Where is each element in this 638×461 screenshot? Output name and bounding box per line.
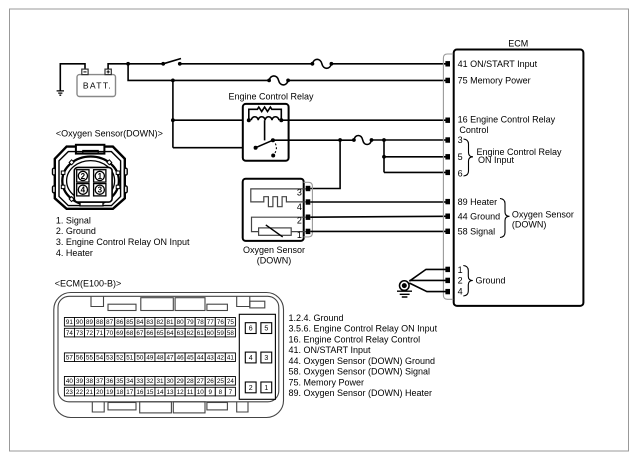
node C (relay coil feed junction) [171,118,175,122]
svg-text:52: 52 [116,355,124,362]
wire fuse F1 to ECM pin 41 [331,63,445,65]
svg-text:61: 61 [197,330,205,337]
relay switch [254,146,258,150]
svg-text:60: 60 [207,330,215,337]
svg-text:70: 70 [106,330,114,337]
svg-text:3. Engine Control Relay ON Inp: 3. Engine Control Relay ON Input [56,237,190,247]
svg-text:72: 72 [86,330,94,337]
svg-text:79: 79 [187,319,195,326]
large pin 2 [245,382,256,393]
connector inner shell [59,152,121,206]
svg-text:86: 86 [116,319,124,326]
svg-text:19: 19 [106,389,114,396]
pin 16 (ECM) [445,118,450,123]
svg-text:5: 5 [264,326,268,333]
svg-text:5: 5 [458,152,463,162]
connector latch tab [76,145,105,154]
pin housing [74,167,112,202]
svg-text:65: 65 [156,330,164,337]
wire relay switch output [273,139,354,141]
svg-text:(DOWN): (DOWN) [512,219,547,229]
svg-text:67: 67 [136,330,144,337]
svg-text:3.5.6. Engine Control Relay ON: 3.5.6. Engine Control Relay ON Input [289,324,438,334]
pin cavity 4 [77,184,89,196]
ring spline ticks [61,160,119,202]
wire sensor pin 2 to ECM pin 44 [310,215,445,218]
ground (battery negative) [57,64,85,95]
svg-text:33: 33 [136,378,144,385]
node B (relay feed junction) [171,79,175,83]
svg-text:84: 84 [136,319,144,326]
svg-text:16: 16 [136,389,144,396]
svg-text:38: 38 [86,378,94,385]
wire node D down to sensor pin 3 [310,140,340,189]
svg-text:87: 87 [106,319,114,326]
large pin 4 [245,352,256,363]
pin 41 (ECM) [445,61,450,66]
svg-text:41. ON/START Input: 41. ON/START Input [289,345,372,355]
svg-text:42: 42 [217,355,225,362]
svg-text:73: 73 [76,330,84,337]
wire ECM pin 1 to chassis ground [409,269,445,281]
top tabs [91,296,265,310]
node A (battery feed junction) [126,62,130,66]
svg-text:75: 75 [227,319,235,326]
ECM pin legend [289,313,438,398]
shell side lugs [53,168,56,175]
ECM pin grid cells [64,318,235,396]
svg-text:63: 63 [177,330,185,337]
svg-text:41: 41 [227,355,235,362]
svg-text:55: 55 [86,355,94,362]
svg-text:80: 80 [177,319,185,326]
svg-text:76: 76 [217,319,225,326]
ECM box [443,39,583,306]
svg-text:24: 24 [227,378,235,385]
fuse F2 (memory power wire) [267,76,290,85]
svg-text:91: 91 [66,319,74,326]
wire node E down [383,140,385,172]
large pin 5 [261,323,272,334]
svg-text:43: 43 [207,355,215,362]
svg-text:56: 56 [76,355,84,362]
wire ECM pin 4 to chassis ground [409,283,445,292]
svg-text:89: 89 [86,319,94,326]
pin cavity 3 [94,184,106,196]
wire node B down to relay [172,80,174,147]
svg-text:4: 4 [297,202,302,212]
pin 1 (ECM) [445,267,450,272]
svg-text:8: 8 [219,389,223,396]
svg-text:50: 50 [136,355,144,362]
connector outer shell [55,147,125,209]
svg-text:1: 1 [98,172,103,181]
svg-text:6: 6 [458,168,463,178]
wire node B branch to relay switch [173,147,256,149]
svg-text:64: 64 [167,330,175,337]
svg-text:12: 12 [177,389,185,396]
svg-text:58: 58 [227,330,235,337]
svg-text:39: 39 [76,378,84,385]
ECM connector view E100-B [54,279,284,418]
svg-text:4: 4 [81,186,86,195]
wire fuse F2 to ECM pin 75 [288,79,446,81]
svg-text:44: 44 [197,355,205,362]
pin 3 (ECM) [445,137,450,142]
svg-text:88: 88 [96,319,104,326]
large pin 6 [245,323,256,334]
svg-text:15: 15 [146,389,154,396]
resistor (relay) [249,107,281,120]
pin 75 (ECM) [445,78,450,83]
svg-text:(DOWN): (DOWN) [257,255,292,265]
svg-text:3: 3 [264,355,268,362]
connector face (ECM) [443,54,453,299]
wire ECM pin 2 to chassis ground [410,279,446,281]
wire node F to ECM pin 5 [384,156,446,158]
pin 6 (ECM) [445,170,450,175]
svg-text:3: 3 [98,186,103,195]
svg-text:2: 2 [81,172,86,181]
wire sensor pin 1 to ECM pin 58 [310,230,445,232]
switch (fusible link, top wire) [161,59,181,66]
svg-text:2: 2 [249,385,253,392]
large pin 1 [261,382,272,393]
bottom tabs [92,402,248,413]
svg-text:90: 90 [76,319,84,326]
svg-text:4: 4 [249,355,253,362]
pin 3 (sensor) [306,186,311,191]
svg-text:Oxygen Sensor: Oxygen Sensor [243,245,305,255]
pin 4 (ECM) [445,289,450,294]
svg-text:22: 22 [76,389,84,396]
svg-text:57: 57 [66,355,74,362]
svg-text:16. Engine Control Relay Contr: 16. Engine Control Relay Control [289,334,421,344]
svg-text:44 Ground: 44 Ground [458,211,501,221]
svg-text:ON Input: ON Input [478,155,515,165]
svg-text:89 Heater: 89 Heater [458,197,498,207]
relay armature link [264,120,266,140]
svg-text:26: 26 [207,378,215,385]
wire node A down to memory power run [128,64,269,81]
svg-text:34: 34 [126,378,134,385]
svg-text:77: 77 [207,319,215,326]
svg-text:10: 10 [197,389,205,396]
ECM connector outer shell [54,293,284,418]
svg-text:1: 1 [264,385,268,392]
svg-text:2: 2 [458,276,463,286]
pin 44 (ECM) [445,214,450,219]
svg-text:49: 49 [146,355,154,362]
svg-text:BATT.: BATT. [83,81,112,91]
svg-text:37: 37 [96,378,104,385]
svg-text:3: 3 [458,135,463,145]
node E (pins 5/6 branch junction) [382,138,386,142]
svg-text:78: 78 [197,319,205,326]
svg-text:59: 59 [217,330,225,337]
svg-text:75 Memory Power: 75 Memory Power [458,76,531,86]
wire top run to switch [128,63,163,65]
svg-text:74: 74 [66,330,74,337]
svg-text:27: 27 [197,378,205,385]
svg-text:Ground: Ground [476,276,506,286]
svg-text:Oxygen Sensor: Oxygen Sensor [512,209,574,219]
node F (pin 5 junction) [382,155,386,159]
svg-text:83: 83 [146,319,154,326]
svg-text:4. Heater: 4. Heater [56,248,93,258]
svg-text:11: 11 [187,389,194,396]
wire switch to fuse F1 [180,63,313,65]
large pin block [239,314,275,399]
zirconia sensing element [252,217,306,231]
svg-text:1. Signal: 1. Signal [56,215,91,225]
svg-text:18: 18 [116,389,124,396]
svg-text:32: 32 [146,378,154,385]
svg-text:85: 85 [126,319,134,326]
svg-text:36: 36 [106,378,114,385]
svg-text:29: 29 [177,378,185,385]
wire relay coil to ECM pin 16 [281,119,445,121]
svg-text:6: 6 [249,326,253,333]
svg-text:53: 53 [106,355,114,362]
svg-text:58 Signal: 58 Signal [458,226,496,236]
svg-text:31: 31 [156,378,164,385]
pin 5 (ECM) [445,154,450,159]
svg-text:82: 82 [156,319,164,326]
pin 2 (ECM) [445,278,450,283]
svg-text:89. Oxygen Sensor (DOWN) Heate: 89. Oxygen Sensor (DOWN) Heater [289,388,433,398]
wire to ECM pin 6 [384,171,446,173]
heater element (sensor) [251,189,306,207]
svg-text:30: 30 [167,378,175,385]
pin 1 (sensor) [306,229,311,234]
svg-text:44. Oxygen Sensor (DOWN) Groun: 44. Oxygen Sensor (DOWN) Ground [289,356,436,366]
brace pins 3-5-6 [464,139,474,176]
svg-text:7: 7 [229,389,233,396]
pin 4 (sensor) [306,199,311,204]
svg-text:16 Engine Control Relay: 16 Engine Control Relay [458,115,556,125]
svg-text:14: 14 [156,389,164,396]
fuse F1 (top wire) [311,59,334,68]
svg-text:35: 35 [116,378,124,385]
svg-text:23: 23 [66,389,74,396]
ECM pin grid numbers [66,319,234,396]
svg-text:9: 9 [209,389,213,396]
svg-text:4: 4 [458,287,463,297]
pin 58 (ECM) [445,229,450,234]
svg-text:45: 45 [187,355,195,362]
battery BATT. [77,69,116,96]
svg-text:69: 69 [116,330,124,337]
oxygen sensor pin legend [56,215,190,257]
svg-text:1: 1 [458,265,463,275]
wire node C to relay coil [173,119,249,121]
wire battery positive to node A [108,64,128,69]
large pin 3 [261,352,272,363]
svg-text:Engine Control Relay: Engine Control Relay [228,91,314,101]
relay: Engine Control Relay [228,91,314,160]
wire fuse F3 to ECM pin 3 [372,139,446,141]
svg-text:66: 66 [146,330,154,337]
svg-text:47: 47 [167,355,175,362]
svg-text:81: 81 [167,319,175,326]
bottom slot [80,202,103,206]
svg-text:<ECM(E100-B)>: <ECM(E100-B)> [55,279,122,289]
chassis ground symbol [397,281,412,297]
coil (relay) [251,117,279,120]
seal ring [62,157,119,206]
fuse F3 (sensor heater wire) [352,136,373,145]
svg-text:21: 21 [86,389,94,396]
ECM connector inner shell [58,296,279,402]
svg-text:48: 48 [156,355,164,362]
svg-text:ECM: ECM [508,39,528,49]
brace pins 89-44-58 [500,199,510,238]
node D (relay output junction) [338,138,342,142]
svg-text:68: 68 [126,330,134,337]
wire sensor pin 4 to ECM pin 89 [310,201,445,203]
svg-text:25: 25 [217,378,225,385]
svg-text:2: 2 [297,216,302,226]
pin 2 (sensor) [306,215,311,220]
brace pins 1-2-4 [463,266,473,297]
pin cavity 1 [94,170,106,182]
pin cavity 2 [77,170,89,182]
svg-text:62: 62 [187,330,195,337]
svg-text:41 ON/START Input: 41 ON/START Input [458,59,538,69]
svg-text:71: 71 [96,330,104,337]
svg-text:2. Ground: 2. Ground [56,226,96,236]
svg-text:58. Oxygen Sensor (DOWN) Signa: 58. Oxygen Sensor (DOWN) Signal [289,367,431,377]
oxygen sensor connector view [53,128,163,209]
svg-text:1.2.4. Ground: 1.2.4. Ground [289,313,344,323]
pin 89 (ECM) [445,199,450,204]
svg-text:28: 28 [187,378,195,385]
connector face (sensor) [304,182,313,237]
svg-text:40: 40 [66,378,74,385]
svg-text:<Oxygen Sensor(DOWN)>: <Oxygen Sensor(DOWN)> [56,128,163,138]
svg-text:17: 17 [126,389,134,396]
svg-text:51: 51 [126,355,134,362]
svg-text:46: 46 [177,355,185,362]
svg-text:75. Memory Power: 75. Memory Power [289,377,365,387]
svg-text:13: 13 [167,389,175,396]
svg-text:54: 54 [96,355,104,362]
oxygen sensor component (DOWN) [243,179,313,266]
svg-text:20: 20 [96,389,104,396]
svg-text:Control: Control [459,125,488,135]
svg-text:1: 1 [297,230,302,240]
svg-text:3: 3 [297,188,302,198]
